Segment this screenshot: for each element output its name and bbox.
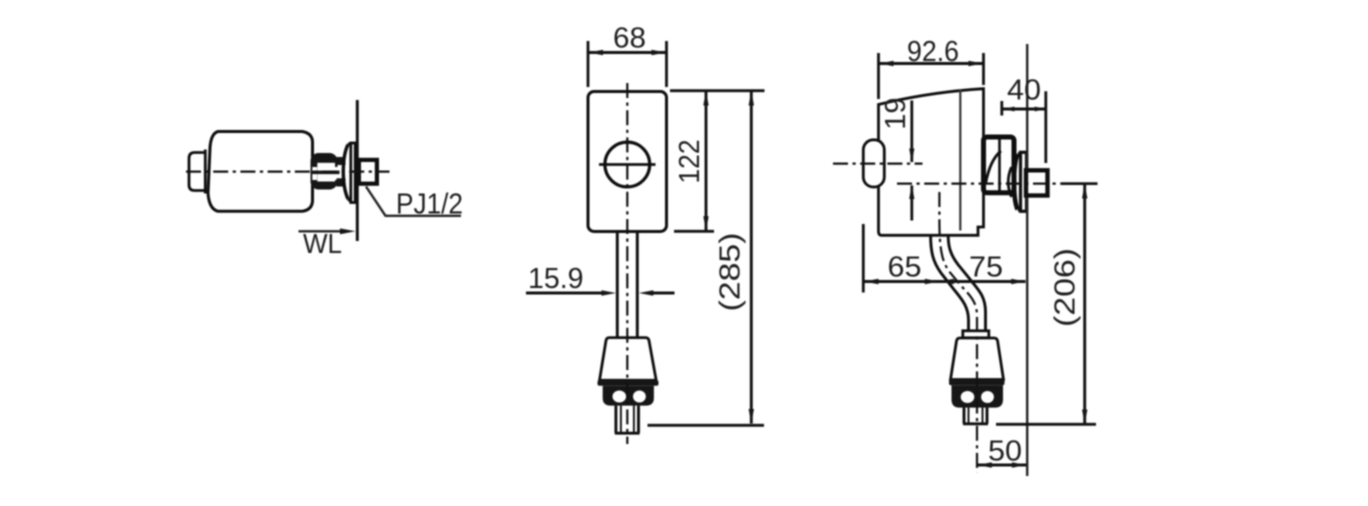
svg-text:68: 68 (613, 23, 646, 55)
svg-text:15.9: 15.9 (528, 263, 584, 295)
svg-text:65: 65 (888, 252, 922, 284)
svg-text:92.6: 92.6 (907, 36, 959, 68)
svg-text:50: 50 (988, 436, 1022, 468)
svg-text:19: 19 (880, 98, 912, 130)
svg-text:75: 75 (969, 252, 1003, 284)
svg-text:122: 122 (674, 140, 706, 184)
svg-text:WL: WL (303, 228, 342, 259)
svg-text:(206): (206) (1050, 248, 1082, 327)
svg-text:40: 40 (1007, 75, 1041, 107)
svg-text:(285): (285) (715, 233, 747, 312)
svg-text:PJ1/2: PJ1/2 (396, 189, 463, 221)
